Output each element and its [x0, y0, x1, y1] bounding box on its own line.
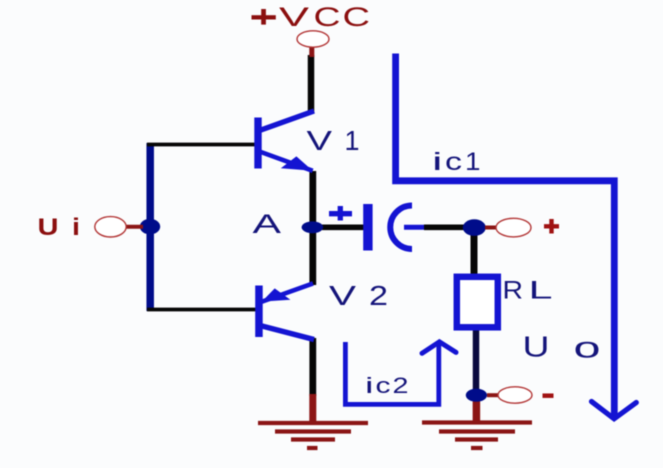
svg-text:V: V [307, 125, 333, 156]
svg-text:C: C [314, 2, 341, 32]
svg-text:1: 1 [465, 148, 481, 176]
svg-text:V: V [329, 280, 356, 311]
svg-text:c: c [445, 148, 462, 176]
svg-text:i: i [432, 148, 443, 176]
svg-text:C: C [343, 2, 371, 32]
svg-text:c: c [376, 373, 391, 398]
svg-text:1: 1 [345, 125, 360, 156]
svg-text:i: i [365, 373, 374, 398]
svg-text:U: U [38, 214, 59, 241]
svg-text:o: o [574, 332, 601, 365]
svg-text:A: A [253, 209, 282, 239]
svg-text:L: L [529, 277, 553, 305]
svg-text:i: i [72, 214, 80, 241]
svg-text:V: V [279, 2, 309, 32]
svg-text:R: R [503, 277, 524, 305]
svg-text:2: 2 [369, 280, 388, 311]
svg-text:2: 2 [393, 373, 409, 398]
svg-text:U: U [523, 332, 550, 364]
